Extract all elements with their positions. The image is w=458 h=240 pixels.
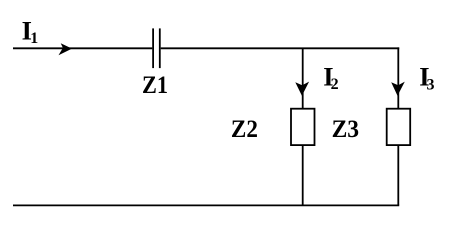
- wire branch 3 vertical upper: [397, 47, 399, 108]
- impedance box Z2: [291, 109, 315, 145]
- capacitor Z1 left plate: [152, 28, 154, 68]
- current arrow I2 head: [295, 82, 309, 96]
- impedance box Z3: [387, 109, 411, 145]
- svg-text:Z3: Z3: [332, 116, 360, 143]
- wire top left segment: [13, 47, 152, 49]
- svg-text:Z2: Z2: [231, 116, 258, 143]
- svg-text:3: 3: [427, 77, 435, 94]
- wire branch 3 vertical lower: [397, 145, 399, 205]
- svg-text:2: 2: [331, 76, 339, 93]
- svg-text:Z1: Z1: [142, 72, 168, 99]
- current arrow I1 head: [59, 43, 73, 55]
- wire branch 2 vertical lower: [302, 145, 304, 205]
- capacitor Z1 right plate: [159, 28, 161, 68]
- svg-text:1: 1: [30, 30, 38, 47]
- wire top main segment: [161, 47, 400, 49]
- wire branch 2 vertical upper: [302, 48, 304, 108]
- current arrow I3 head: [391, 82, 405, 96]
- wire bottom return: [13, 204, 399, 206]
